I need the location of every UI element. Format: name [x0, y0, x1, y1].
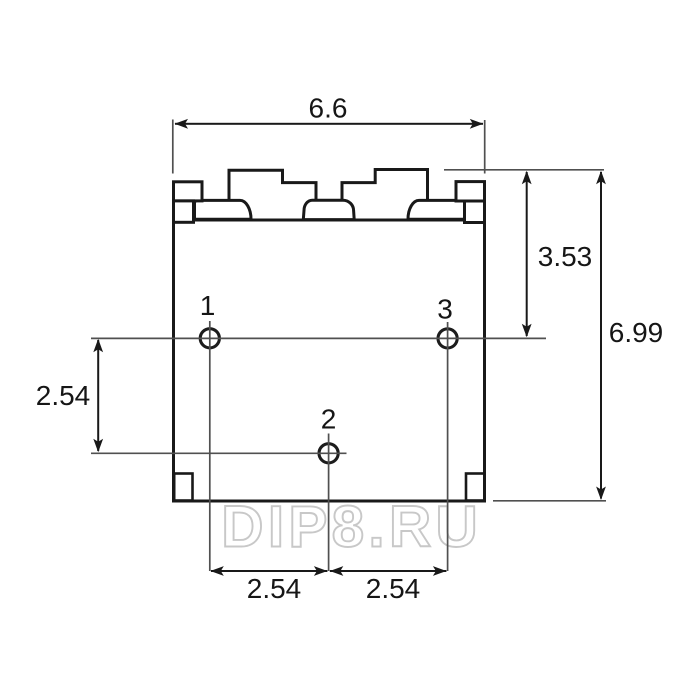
svg-text:2: 2 [321, 404, 337, 435]
centerline through pin 2 [91, 452, 347, 454]
vertical centerline pin 3 [447, 322, 449, 571]
pin 1 hole [200, 329, 219, 348]
bottom-left notch [174, 474, 192, 501]
svg-text:DIP8.RU: DIP8.RU [221, 494, 482, 559]
dimension lines with arrows [93, 119, 606, 576]
pin 2 lead profile [303, 200, 354, 219]
thin construction / extension lines [91, 120, 606, 572]
svg-text:2.54: 2.54 [366, 573, 421, 604]
bottom extension line 6.99 [493, 500, 606, 502]
svg-text:6.6: 6.6 [309, 93, 348, 124]
pin 2 hole [319, 444, 338, 463]
bottom-right notch [466, 474, 485, 501]
centerline through pins 1 and 3 [91, 337, 546, 339]
svg-text:6.99: 6.99 [609, 317, 664, 348]
dim line 6.6 [175, 123, 483, 125]
svg-text:2.54: 2.54 [247, 573, 302, 604]
housing block A (center-left) [229, 170, 316, 200]
vertical centerline pin 2 [328, 434, 330, 572]
body outline [174, 220, 485, 501]
pin 3 hole [438, 329, 457, 348]
dimension texts [36, 93, 664, 604]
dim line 6.99 [600, 172, 602, 499]
pin 3 lead profile [408, 200, 465, 219]
dim line 3.53 [526, 172, 528, 336]
dim line 2.54 left [97, 340, 99, 451]
pin 1 lead profile [195, 200, 252, 219]
pin hole circles [200, 329, 457, 463]
housing block B (center-right) [342, 170, 428, 201]
svg-text:2.54: 2.54 [36, 380, 91, 411]
extension line 6.6 right [484, 120, 486, 174]
svg-text:3: 3 [437, 294, 453, 325]
right side rect [465, 201, 485, 223]
svg-text:1: 1 [200, 290, 216, 321]
dim line 2.54 bottom-left [211, 570, 327, 572]
dim line 2.54 bottom-right [330, 570, 447, 572]
vertical centerline pin 1 [209, 321, 211, 571]
top extension line right [444, 169, 604, 171]
body left edge upper [172, 183, 175, 221]
body right edge upper [483, 182, 486, 221]
right top tab [456, 182, 485, 201]
svg-text:3.53: 3.53 [538, 241, 593, 272]
left side rect [174, 201, 194, 222]
left top tab [174, 182, 203, 201]
extension line 6.6 left [172, 120, 174, 174]
